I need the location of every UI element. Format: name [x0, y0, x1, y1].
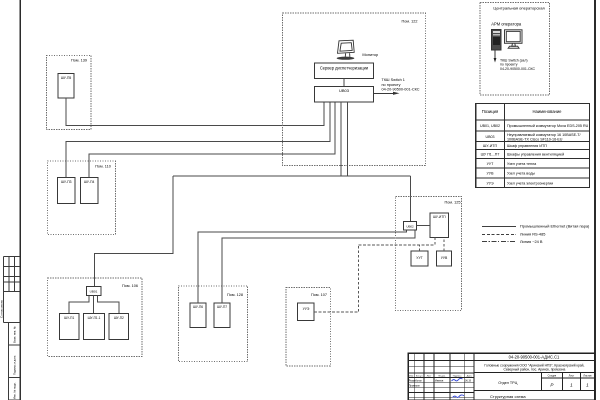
svg-text:Узел учета тепла: Узел учета тепла: [507, 162, 537, 166]
titleblock header labels: [409, 374, 472, 377]
table column divider: [504, 104, 506, 188]
svg-text:Взам. инв. №: Взам. инв. №: [13, 326, 17, 343]
room Пом.125: [396, 197, 462, 311]
svg-text:Лист: Лист: [427, 375, 432, 377]
svg-text:АРМ оператора: АРМ оператора: [491, 22, 522, 27]
LEFT-STAMP: [0, 257, 20, 400]
svg-text:UB03: UB03: [339, 88, 350, 93]
svg-text:Монитор: Монитор: [362, 52, 378, 57]
svg-text:ШУ-П5: ШУ-П5: [61, 76, 72, 80]
svg-text:УУВ: УУВ: [487, 172, 495, 176]
wire ШУ-П7 to UB02: [222, 230, 415, 303]
wire ШУ-П5 to UB03: [66, 98, 324, 126]
legend Ethernet line: [482, 226, 516, 228]
meter УУВ: [437, 251, 452, 266]
svg-text:1: 1: [586, 383, 589, 388]
svg-text:Пом. 125: Пом. 125: [445, 201, 461, 205]
titleblock row Разработал: [409, 379, 472, 382]
stamp box Инв. № подл.: [9, 378, 21, 400]
svg-text:Иванов: Иванов: [435, 379, 444, 382]
wire ШУ-П6 to UB02: [198, 230, 407, 303]
svg-text:по проекту: по проекту: [382, 83, 401, 87]
svg-text:Инв. № подл.: Инв. № подл.: [13, 382, 17, 399]
svg-text:Узел учета воды: Узел учета воды: [507, 172, 535, 176]
svg-text:Линия RS-485: Линия RS-485: [520, 232, 545, 237]
svg-text:Стадия: Стадия: [548, 375, 557, 378]
room Пом.122: [283, 13, 426, 166]
svg-text:Пом. 107: Пом. 107: [311, 293, 327, 297]
svg-text:Отдел ТРЦ: Отдел ТРЦ: [498, 381, 517, 385]
svg-text:1: 1: [570, 383, 573, 388]
meter УУЭ: [298, 303, 315, 321]
svg-text:ТКШ Switch 1: ТКШ Switch 1: [382, 78, 405, 82]
svg-text:06.19: 06.19: [465, 379, 472, 382]
cabinet ШУ-П6: [190, 303, 206, 328]
cabinet ШУ-П4: [80, 178, 98, 204]
room Центральная операторская: [480, 3, 550, 96]
svg-text:Подпись и дата: Подпись и дата: [13, 355, 17, 375]
cabinet ШУ-П1: [59, 314, 79, 340]
svg-text:УУВ: УУВ: [441, 256, 448, 260]
wire УУТ to meter bus: [419, 245, 421, 251]
svg-text:ШУ-П4: ШУ-П4: [84, 180, 95, 184]
table row lines: [476, 119, 590, 121]
workstation monitor icon: [505, 30, 523, 48]
svg-text:Пом. 139: Пом. 139: [71, 59, 87, 63]
svg-text:ШУ-П2: ШУ-П2: [114, 316, 124, 320]
wire UB03 down-left bus: [95, 102, 411, 287]
svg-text:04-20-90500-001-СКС: 04-20-90500-001-СКС: [500, 67, 536, 71]
TITLE-BLOCK: [408, 353, 594, 400]
titleblock object name cell: [474, 363, 594, 372]
room Пом.106: [48, 278, 142, 356]
svg-text:Изм: Изм: [409, 375, 414, 377]
table row УУЭ: [486, 181, 553, 185]
svg-text:Линия ~24 В: Линия ~24 В: [520, 239, 543, 244]
svg-text:Согласовано: Согласовано: [0, 300, 4, 318]
wire server to UB03: [343, 78, 345, 86]
svg-text:Дата: Дата: [467, 375, 473, 377]
svg-text:ШУ-П3: ШУ-П3: [61, 180, 72, 184]
wire trunk horizontal: [173, 175, 410, 177]
table row УУВ: [487, 172, 536, 176]
table row УУТ: [487, 162, 538, 166]
arrow to ТКШ Switch зал: [494, 50, 536, 71]
svg-text:ШУ-П1.1: ШУ-П1.1: [88, 316, 101, 320]
svg-text:Неуправляемый коммутатор 16 10: Неуправляемый коммутатор 16 10BASE-T/: [507, 133, 582, 137]
cabinet ШУ-ИТП: [430, 213, 449, 238]
LEGEND-LINES: [482, 224, 590, 245]
switch UB03: [315, 86, 374, 102]
frame left border: [19, 0, 21, 400]
wire ШУ-П4 to UB03: [89, 102, 335, 178]
wire UB01 fanout: [69, 295, 119, 313]
titleblock stage table: [474, 373, 594, 391]
wire UB02 to ШУ-ИТП: [417, 225, 431, 227]
svg-text:ШУ-ИТП: ШУ-ИТП: [483, 144, 498, 148]
legend RS-485 line: [482, 234, 516, 236]
stamp box Взам. инв. №: [9, 323, 21, 346]
switch UB02: [404, 222, 417, 231]
svg-text:Наименование: Наименование: [532, 109, 562, 114]
svg-text:Центральная операторская: Центральная операторская: [493, 6, 544, 11]
cabinet ШУ-П2: [109, 314, 129, 340]
svg-text:№ док.: № док.: [438, 374, 445, 377]
svg-text:Листов: Листов: [583, 375, 592, 378]
room Пом.128: [178, 286, 247, 362]
monitor icon Монитор: [337, 40, 355, 60]
table row UB01 UB02: [480, 124, 589, 128]
svg-text:УУЭ: УУЭ: [303, 307, 310, 311]
svg-text:ШУ-ИТП: ШУ-ИТП: [433, 215, 446, 219]
svg-text:Промышленный Ethernet (Витая п: Промышленный Ethernet (Витая пара): [520, 224, 590, 229]
svg-text:Промышленный коммутатор Moxa E: Промышленный коммутатор Moxa EDS-205 RU: [507, 124, 589, 128]
wire УУВ to ШУ-ИТП: [443, 238, 445, 251]
wire УУЭ to meter bus: [314, 245, 359, 312]
svg-text:Проверил: Проверил: [409, 384, 421, 387]
svg-text:Позиция: Позиция: [482, 109, 499, 114]
meter УУТ: [411, 251, 428, 266]
svg-text:УУТ: УУТ: [416, 256, 422, 260]
room Пом.107: [286, 288, 330, 366]
svg-text:Подпись: Подпись: [453, 375, 463, 377]
table row ШУ-ИТП: [483, 144, 547, 148]
titleblock scheme cell: [490, 381, 526, 399]
cabinet ШУ-П7: [214, 303, 230, 328]
svg-text:Пом. 110: Пом. 110: [95, 165, 111, 169]
titleblock outer: [408, 353, 594, 400]
svg-text:ШУ-П6: ШУ-П6: [193, 305, 203, 309]
svg-text:Пом. 122: Пом. 122: [402, 20, 418, 24]
workstation tower icon: [492, 30, 502, 51]
stamp grid upper: [4, 257, 21, 323]
svg-text:ШУ-П7: ШУ-П7: [217, 305, 227, 309]
svg-text:Разработал: Разработал: [409, 379, 423, 382]
table row ШУ П1..П7: [481, 153, 565, 157]
svg-text:Кол.уч: Кол.уч: [416, 375, 423, 377]
svg-text:ШУ-П1: ШУ-П1: [64, 316, 74, 320]
svg-text:Пом. 128: Пом. 128: [227, 293, 243, 297]
svg-text:УУЭ: УУЭ: [486, 181, 493, 185]
svg-text:100BASE-TX Cisco SF110-16-EU: 100BASE-TX Cisco SF110-16-EU: [507, 137, 563, 141]
svg-text:Шкафы управления вентиляцией: Шкафы управления вентиляцией: [507, 153, 564, 157]
frame right border: [594, 0, 596, 400]
svg-text:04-20-90500-001-АДИС.С1: 04-20-90500-001-АДИС.С1: [509, 355, 560, 360]
svg-text:Структурная схема: Структурная схема: [490, 394, 526, 399]
svg-text:Сервер диспетчеризации: Сервер диспетчеризации: [320, 65, 368, 70]
titleblock left grid: [408, 353, 474, 400]
cabinet ШУ-П5: [58, 73, 74, 97]
wire meter bus: [359, 238, 435, 245]
signature squiggle 2: [453, 395, 465, 398]
arrow to ТКШ Switch 1: [373, 78, 420, 95]
svg-text:Лист: Лист: [569, 375, 575, 378]
svg-text:04-20-90500-001-СКС: 04-20-90500-001-СКС: [382, 87, 420, 91]
legend 24V line: [482, 241, 516, 243]
signature squiggle 1: [452, 378, 463, 381]
svg-text:Северный район, пос. Аринск, п: Северный район, пос. Аринск, промзона: [503, 368, 565, 372]
stamp box Подпись и дата: [9, 345, 21, 378]
wire trunk to UB01: [95, 176, 174, 286]
svg-text:UB01, UB02: UB01, UB02: [480, 124, 500, 128]
table header: [482, 109, 562, 114]
svg-text:Пом. 106: Пом. 106: [122, 284, 138, 288]
svg-text:UB01: UB01: [90, 290, 98, 294]
switch UB01: [86, 286, 101, 295]
svg-text:Узел учета электроэнергии: Узел учета электроэнергии: [507, 181, 553, 185]
svg-text:ШУ П1...П7: ШУ П1...П7: [481, 153, 500, 157]
room Пом.110: [47, 161, 115, 234]
svg-text:ТКШ Switch (зал): ТКШ Switch (зал): [500, 58, 528, 62]
server box Сервер диспетчеризации: [315, 63, 374, 78]
room Пом.139: [46, 55, 91, 129]
svg-text:УУТ: УУТ: [487, 162, 495, 166]
titleblock main divider: [473, 353, 475, 400]
titleblock doc number cell: [474, 355, 594, 361]
svg-text:Шкаф управления ИТП: Шкаф управления ИТП: [507, 144, 547, 148]
cabinet ШУ-П1.1: [83, 314, 104, 340]
wire ШУ-П3 to UB03: [66, 102, 330, 178]
table border: [476, 104, 590, 188]
svg-text:UB02: UB02: [406, 225, 414, 229]
cabinet ШУ-П3: [58, 178, 75, 204]
svg-text:UB03: UB03: [486, 135, 495, 139]
LEGEND-TABLE: [476, 104, 590, 188]
table row UB03: [486, 133, 582, 142]
wire trunk to UB02: [409, 176, 411, 221]
